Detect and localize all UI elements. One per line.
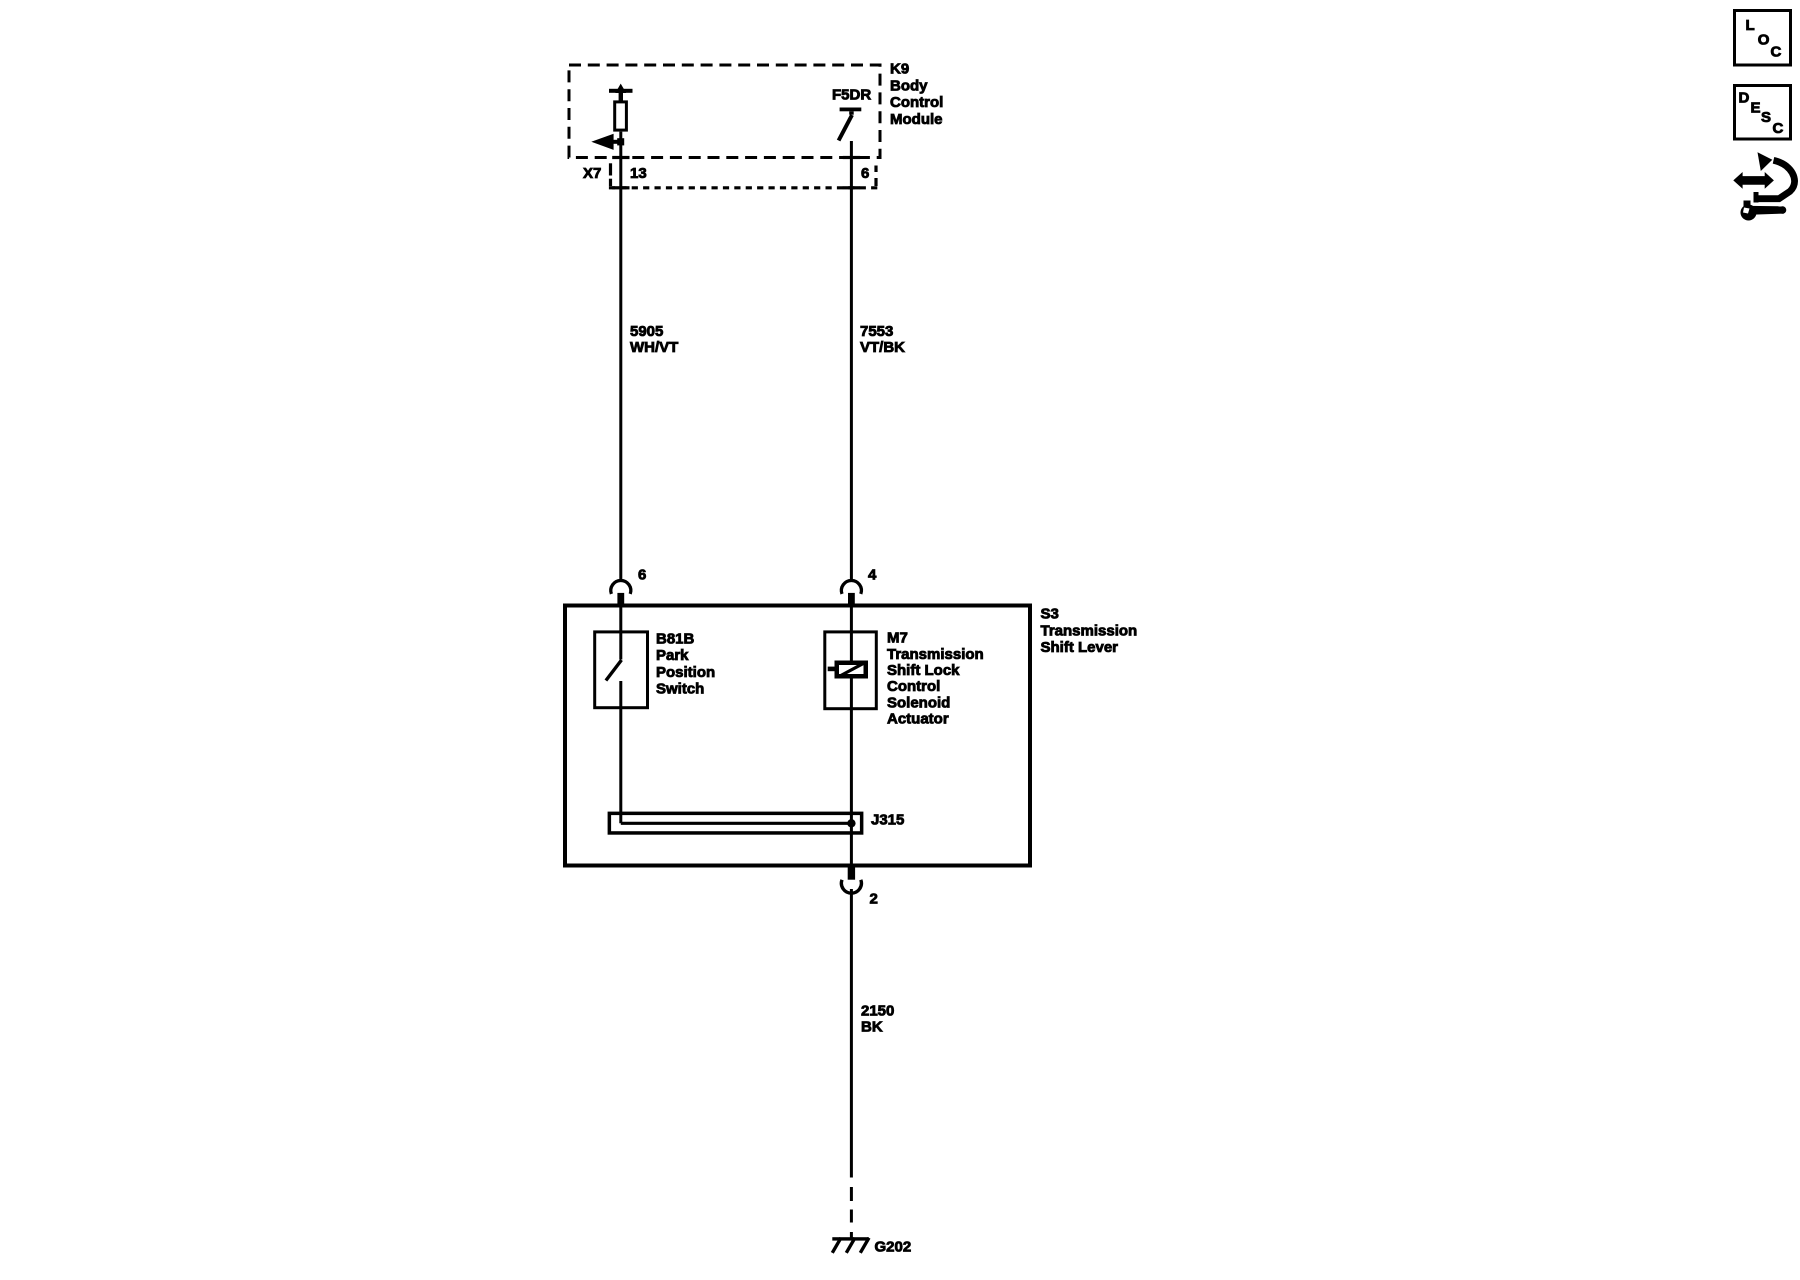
K9 label [890,61,943,128]
svg-text:VT/BK: VT/BK [860,339,905,356]
svg-text:Park: Park [656,647,689,664]
svg-text:Switch: Switch [656,681,704,698]
svg-text:Body: Body [890,77,928,94]
X7 connector bottom dotted line [609,186,878,189]
svg-text:Position: Position [656,664,715,681]
icon DESC box [1735,86,1791,140]
X7 connector right dotted edge [874,166,877,173]
svg-text:2: 2 [870,890,878,907]
wire M7 through to S3 bottom [850,606,853,866]
svg-text:C: C [1771,44,1782,61]
svg-text:Module: Module [890,111,943,128]
M7 label [887,630,984,728]
connector arc pin 6 (S3 top) [611,580,631,593]
svg-text:B81B: B81B [656,630,695,647]
S3 label [1041,606,1138,657]
BCM driver up arrow [615,84,626,93]
F5DR switch blade [839,115,852,141]
S3 Transmission Shift Lever box [565,606,1030,866]
icon harness/wrench [1733,152,1794,220]
X7 connector left dashed edge [609,163,612,175]
svg-text:6: 6 [638,567,646,584]
X7 ticks on dotted line [612,186,629,189]
J315 bus wire [621,822,852,825]
B81B upper contact wire [619,606,622,660]
connector pin 2 (S3 bottom) [848,868,855,880]
BCM driver supply bar [609,89,633,93]
M7 solenoid box [825,632,877,709]
dashed ground lead [850,1187,853,1201]
svg-text:J315: J315 [871,811,904,828]
B81B label [656,630,715,697]
double headed arrow [1733,172,1774,189]
wire label 2150 BK [861,1003,894,1036]
svg-text:G202: G202 [875,1239,912,1256]
svg-text:5905: 5905 [630,323,663,340]
svg-text:Control: Control [887,678,940,695]
svg-text:O: O [1758,31,1770,48]
svg-text:Shift Lock: Shift Lock [887,662,960,679]
connector arc pin 4 (S3 top) [841,580,861,593]
svg-text:6: 6 [861,165,869,182]
svg-text:M7: M7 [887,630,908,647]
J315 splice pack housing [609,813,861,833]
svg-text:2150: 2150 [861,1003,894,1020]
svg-text:WH/VT: WH/VT [630,339,678,356]
svg-text:S3: S3 [1041,606,1059,623]
K9 Body Control Module dashed box [569,65,880,158]
svg-text:Actuator: Actuator [887,711,949,728]
J315 junction dot [847,819,855,827]
wire B81B lower contact to J315 [619,681,622,823]
wire 2150 (bottom vertical) [850,889,853,1178]
ground symbol G202 [832,1237,869,1240]
wire 7553 (right vertical) [850,141,853,581]
svg-text:Transmission: Transmission [887,646,984,663]
BCM driver output arrow [611,140,624,144]
curved arrow body [1756,160,1795,198]
svg-text:F5DR: F5DR [832,86,871,103]
svg-text:L: L [1746,17,1755,34]
svg-text:D: D [1739,90,1750,107]
X7 connector ticks on dashed box line [612,156,629,159]
wire label 5905 WH/VT [630,323,678,356]
svg-text:Control: Control [890,94,943,111]
svg-text:E: E [1751,99,1761,116]
M7 solenoid symbol [828,667,835,672]
svg-text:Solenoid: Solenoid [887,694,950,711]
svg-text:4: 4 [868,567,877,584]
wire label 7553 VT/BK [860,323,905,356]
F5DR switch contact bar [840,108,862,112]
svg-text:Transmission: Transmission [1041,622,1138,639]
wire 5905 (left vertical) [619,132,622,582]
B81B switch blade [606,660,622,681]
svg-text:7553: 7553 [860,323,893,340]
BCM driver resistor [615,102,627,130]
icon LOC box [1735,11,1791,66]
svg-text:X7: X7 [583,165,601,182]
svg-text:S: S [1761,109,1771,126]
svg-text:BK: BK [861,1019,883,1036]
svg-text:K9: K9 [890,61,909,78]
svg-text:13: 13 [630,165,647,182]
wrench [1741,205,1757,221]
B81B park position switch box [595,632,648,708]
svg-text:Shift Lever: Shift Lever [1041,639,1119,656]
svg-text:C: C [1773,120,1784,137]
